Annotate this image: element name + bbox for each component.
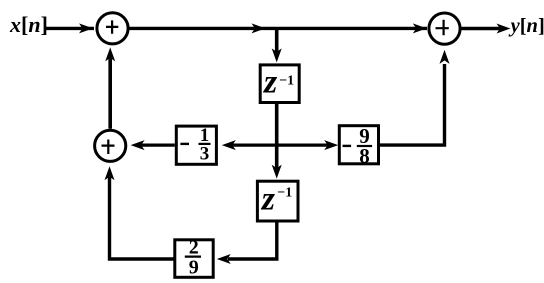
svg-text:9: 9: [189, 256, 199, 278]
svg-text:2: 2: [189, 237, 199, 259]
svg-text:z: z: [261, 181, 276, 218]
wire: Z1 output down through node N2 to delay Z2, arrowhead: [272, 104, 282, 179]
svg-text:x[n]: x[n]: [9, 12, 48, 37]
svg-text:8: 8: [359, 144, 370, 168]
svg-text:y[n]: y[n]: [508, 15, 544, 37]
wire: Z2 output down then left to gain G3 with arrowhead: [217, 223, 277, 265]
wire: gain G2 output right then up to adder A3 with arrowhead: [380, 50, 450, 145]
gain block G3 (coefficient 2/9): [175, 237, 213, 279]
adder A2 (middle left summing junction): [95, 130, 126, 161]
wire: x[n] input to adder A1 with arrowhead: [46, 23, 94, 33]
wire: node N2 right to gain G2 with arrowhead: [277, 140, 339, 150]
wire: gain G3 output left then up to adder A2 with arrowhead: [105, 166, 174, 259]
adder A1 (top left summing junction): [97, 13, 128, 44]
svg-text:z: z: [263, 63, 278, 100]
svg-text:3: 3: [200, 144, 210, 165]
node N1: branch on top wire down into first delay Z1: [272, 28, 282, 62]
svg-text:−1: −1: [279, 74, 294, 89]
gain block G2 (coefficient -9/8): [339, 124, 378, 168]
svg-text:−1: −1: [277, 186, 292, 201]
delay element Z2 (z^-1 box, lower): [257, 181, 298, 222]
adder A3 (top right summing junction): [429, 13, 460, 44]
wire: node N2 left to gain G1 with arrowhead: [222, 140, 277, 150]
wire: adder A3 output to y[n] with arrowhead: [462, 24, 511, 34]
gain block G1 (coefficient -1/3): [176, 125, 216, 165]
wire: adder A1 to adder A3 along top, mid arrowhead: [130, 23, 428, 33]
wire: gain G1 output to adder A2 with arrowhead: [131, 140, 175, 150]
wire: adder A2 up to adder A1 with arrowhead: [105, 47, 115, 128]
delay element Z1 (z^-1 box, upper): [260, 63, 299, 102]
